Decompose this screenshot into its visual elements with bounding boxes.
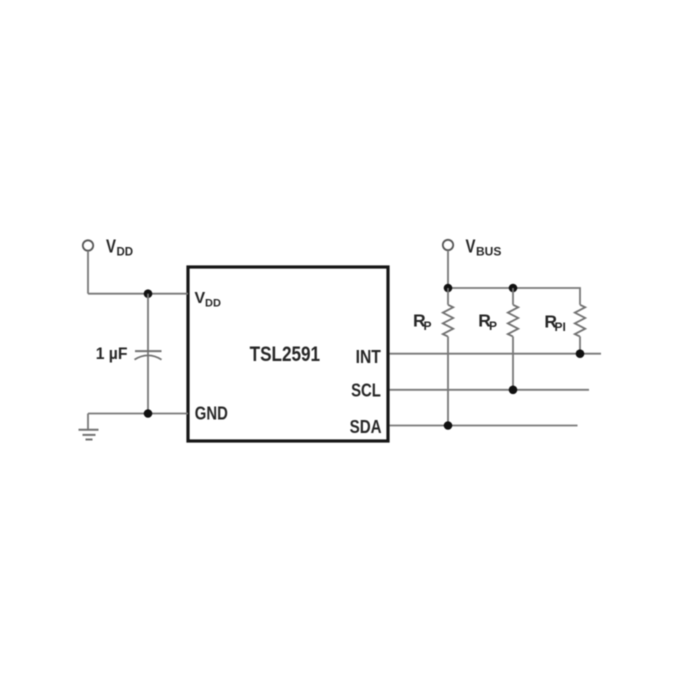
wire INT (390, 353, 602, 355)
node junction GND-cap (144, 409, 153, 418)
node junction rail R2 (509, 284, 518, 293)
svg-text:DD: DD (117, 246, 134, 258)
ground (79, 414, 99, 440)
resistor R_P 1 (443, 288, 453, 426)
svg-text:TSL2591: TSL2591 (250, 343, 321, 366)
wire GND rail (88, 413, 188, 415)
pin label GND (195, 403, 228, 423)
label RP2 (478, 310, 497, 333)
pin label SDA (350, 417, 382, 437)
svg-text:P: P (424, 319, 432, 333)
svg-text:V: V (195, 290, 206, 307)
label RP1 (413, 310, 432, 333)
resistor R_PI (575, 305, 585, 354)
svg-text:PI: PI (555, 320, 566, 334)
node junction VDD-cap (144, 289, 153, 298)
node junction rail R1 (444, 284, 453, 293)
label 1uF (96, 344, 128, 363)
svg-text:INT: INT (356, 347, 381, 367)
label VDD (106, 237, 133, 259)
svg-text:GND: GND (195, 403, 228, 423)
svg-text:BUS: BUS (476, 245, 501, 259)
svg-text:DD: DD (205, 297, 221, 309)
svg-text:SCL: SCL (351, 380, 381, 400)
terminal VDD (83, 240, 93, 250)
pin label VDD (195, 290, 221, 309)
resistor R_P 2 (508, 288, 518, 390)
wire VBUS rail (448, 288, 580, 305)
wire cap vertical (147, 294, 149, 414)
wire VBUS terminal down (447, 250, 449, 288)
wire SCL (390, 389, 590, 391)
terminal VBUS (443, 240, 453, 250)
label VBUS (466, 237, 502, 259)
pin label INT (356, 347, 381, 367)
label TSL2591 (250, 343, 321, 366)
capacitor C1 (135, 351, 162, 360)
wire SDA (390, 425, 578, 427)
svg-text:P: P (489, 319, 497, 333)
svg-text:V: V (466, 237, 476, 257)
wire VDD rail to IC (88, 293, 188, 295)
node junction RPI-INT (576, 349, 585, 358)
node junction R2-SCL (509, 386, 518, 395)
svg-text:SDA: SDA (350, 417, 382, 437)
pin label SCL (351, 380, 381, 400)
IC U1 TSL2591 (188, 267, 388, 441)
node junction R1-SDA (444, 421, 453, 430)
wire VDD terminal down (87, 251, 89, 294)
svg-text:V: V (106, 237, 116, 257)
label RPI (544, 312, 565, 335)
svg-text:1 µF: 1 µF (96, 344, 128, 363)
